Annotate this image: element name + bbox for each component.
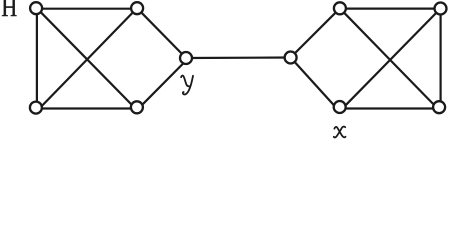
node BL2 (x) xyxy=(334,101,346,113)
wire edge TL2-BR2 (diagonal, right square) xyxy=(340,8,436,107)
wire edge TR1-y xyxy=(137,8,186,58)
node TL1 xyxy=(30,2,42,14)
label y (italic math y under node y) xyxy=(181,76,193,95)
node y xyxy=(180,52,192,64)
node TR1 xyxy=(131,2,143,14)
node BR2 xyxy=(433,101,445,113)
node BL1 xyxy=(30,102,42,114)
wire edge TR2-BL2 (diagonal, right square) xyxy=(344,9,440,107)
node TR2 xyxy=(435,3,447,15)
node TL2 xyxy=(334,2,346,14)
wire edge TL1-TR1 (top, left square) xyxy=(36,8,137,10)
wire edge TL1-BL1 (left side, left square) xyxy=(36,8,38,107)
wire edge TL1-BR1 (diagonal, left square) xyxy=(37,8,134,107)
wire edge TR1-BL1 (diagonal, left square) xyxy=(40,8,137,108)
node C xyxy=(285,52,297,64)
wire edge C-BL2 xyxy=(291,58,336,107)
wire edge BL2-BR2 (bottom, right square) xyxy=(340,107,439,109)
wire edge BR1-y xyxy=(140,58,189,107)
wire edge TR2-BR2 (right side, right square) xyxy=(440,9,442,107)
label x (italic math x under node BL2) xyxy=(334,127,346,138)
svg-text:H: H xyxy=(1,0,17,22)
wire edge BL1-BR1 (bottom, left square) xyxy=(36,107,137,109)
wire edge y-C (bridge) xyxy=(186,56,291,59)
wire edge TL2-TR2 (top, right square) xyxy=(340,8,441,10)
wire edge C-TL2 xyxy=(291,8,340,57)
node BR1 xyxy=(131,101,143,113)
